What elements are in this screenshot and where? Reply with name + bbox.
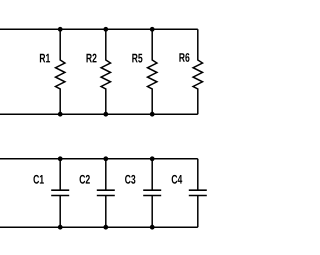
resistor R6 [179, 29, 202, 114]
capacitor C3 [125, 159, 161, 227]
resistor R1 [40, 29, 65, 114]
node junction R1 top [58, 27, 63, 32]
node junction R1 bottom [58, 112, 63, 117]
capacitor C2 [80, 159, 115, 227]
node junction C2 bottom [103, 225, 108, 230]
node junction C1 bottom [58, 225, 63, 230]
capacitor C1 [33, 159, 69, 227]
resistor R2 [86, 29, 110, 114]
resistor R5 [132, 29, 157, 114]
node junction R5 bottom [150, 112, 155, 117]
wire: top rail of capacitor bank [0, 158, 198, 160]
wire: bottom rail of resistor bank [0, 113, 198, 115]
node junction C2 top [103, 156, 108, 161]
node junction R2 top [103, 27, 108, 32]
node junction C3 bottom [150, 225, 155, 230]
node junction C3 top [150, 156, 155, 161]
node junction C1 top [58, 156, 63, 161]
wire: bottom rail of capacitor bank [0, 226, 198, 228]
wire: top rail of resistor bank [0, 28, 198, 30]
node junction R5 top [150, 27, 155, 32]
capacitor C4 [172, 159, 207, 227]
node junction R2 bottom [103, 112, 108, 117]
